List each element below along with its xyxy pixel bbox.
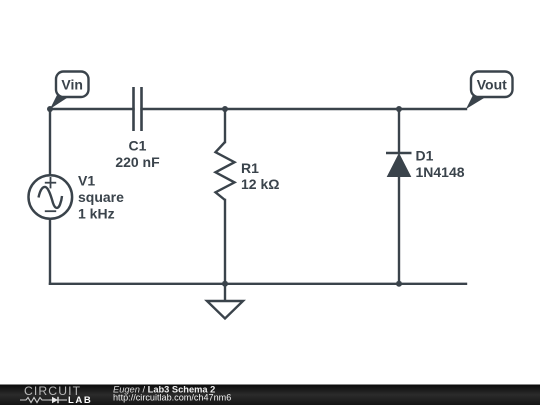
resistor R1	[216, 142, 235, 200]
diode D1	[386, 153, 412, 177]
svg-text:12 kΩ: 12 kΩ	[241, 176, 279, 192]
logo schematic squiggle (resistor)	[20, 398, 49, 403]
svg-text:C1: C1	[129, 137, 147, 153]
wire bottom rail: ground node to D1 node	[225, 283, 399, 285]
wire top rail: C1 right plate to R1 node	[142, 108, 226, 110]
logo schematic diode	[49, 397, 67, 403]
wire top rail: D1 node to Vout pointer	[399, 108, 466, 110]
node label Vout	[466, 72, 513, 110]
svg-text:Vin: Vin	[61, 77, 83, 93]
wire bottom rail: V1 to ground node	[50, 283, 225, 285]
svg-text:square: square	[78, 189, 124, 205]
svg-text:LAB: LAB	[68, 395, 92, 405]
wire D1 bottom lead	[398, 176, 400, 284]
voltage source V1	[29, 175, 73, 219]
node R1 top (junction dot)	[222, 106, 228, 112]
svg-text:1 kHz: 1 kHz	[78, 205, 115, 221]
wire D1 top lead	[398, 109, 400, 153]
svg-text:V1: V1	[78, 173, 95, 189]
svg-text:http://circuitlab.com/ch47nm6: http://circuitlab.com/ch47nm6	[113, 393, 231, 403]
node D1 bottom (junction dot)	[396, 281, 402, 287]
wire V1 top lead	[49, 109, 51, 175]
wire bottom rail: D1 node to right end	[399, 283, 466, 285]
svg-text:Vout: Vout	[477, 77, 507, 93]
svg-text:R1: R1	[241, 160, 259, 176]
wire V1 bottom lead	[49, 219, 51, 284]
wire R1 bottom lead	[224, 200, 226, 284]
capacitor C1	[134, 87, 142, 131]
wire R1 top lead	[224, 109, 226, 142]
node label Vin	[50, 72, 89, 110]
wire top rail: Vin node to C1 left plate	[50, 108, 134, 110]
node Vin (junction dot)	[47, 106, 53, 112]
node ground (junction dot)	[222, 281, 228, 287]
wire top rail: R1 node to D1 node	[225, 108, 399, 110]
svg-text:220 nF: 220 nF	[115, 154, 160, 170]
svg-text:1N4148: 1N4148	[416, 164, 465, 180]
svg-text:D1: D1	[416, 148, 434, 164]
node D1 top (junction dot)	[396, 106, 402, 112]
ground	[207, 284, 243, 319]
